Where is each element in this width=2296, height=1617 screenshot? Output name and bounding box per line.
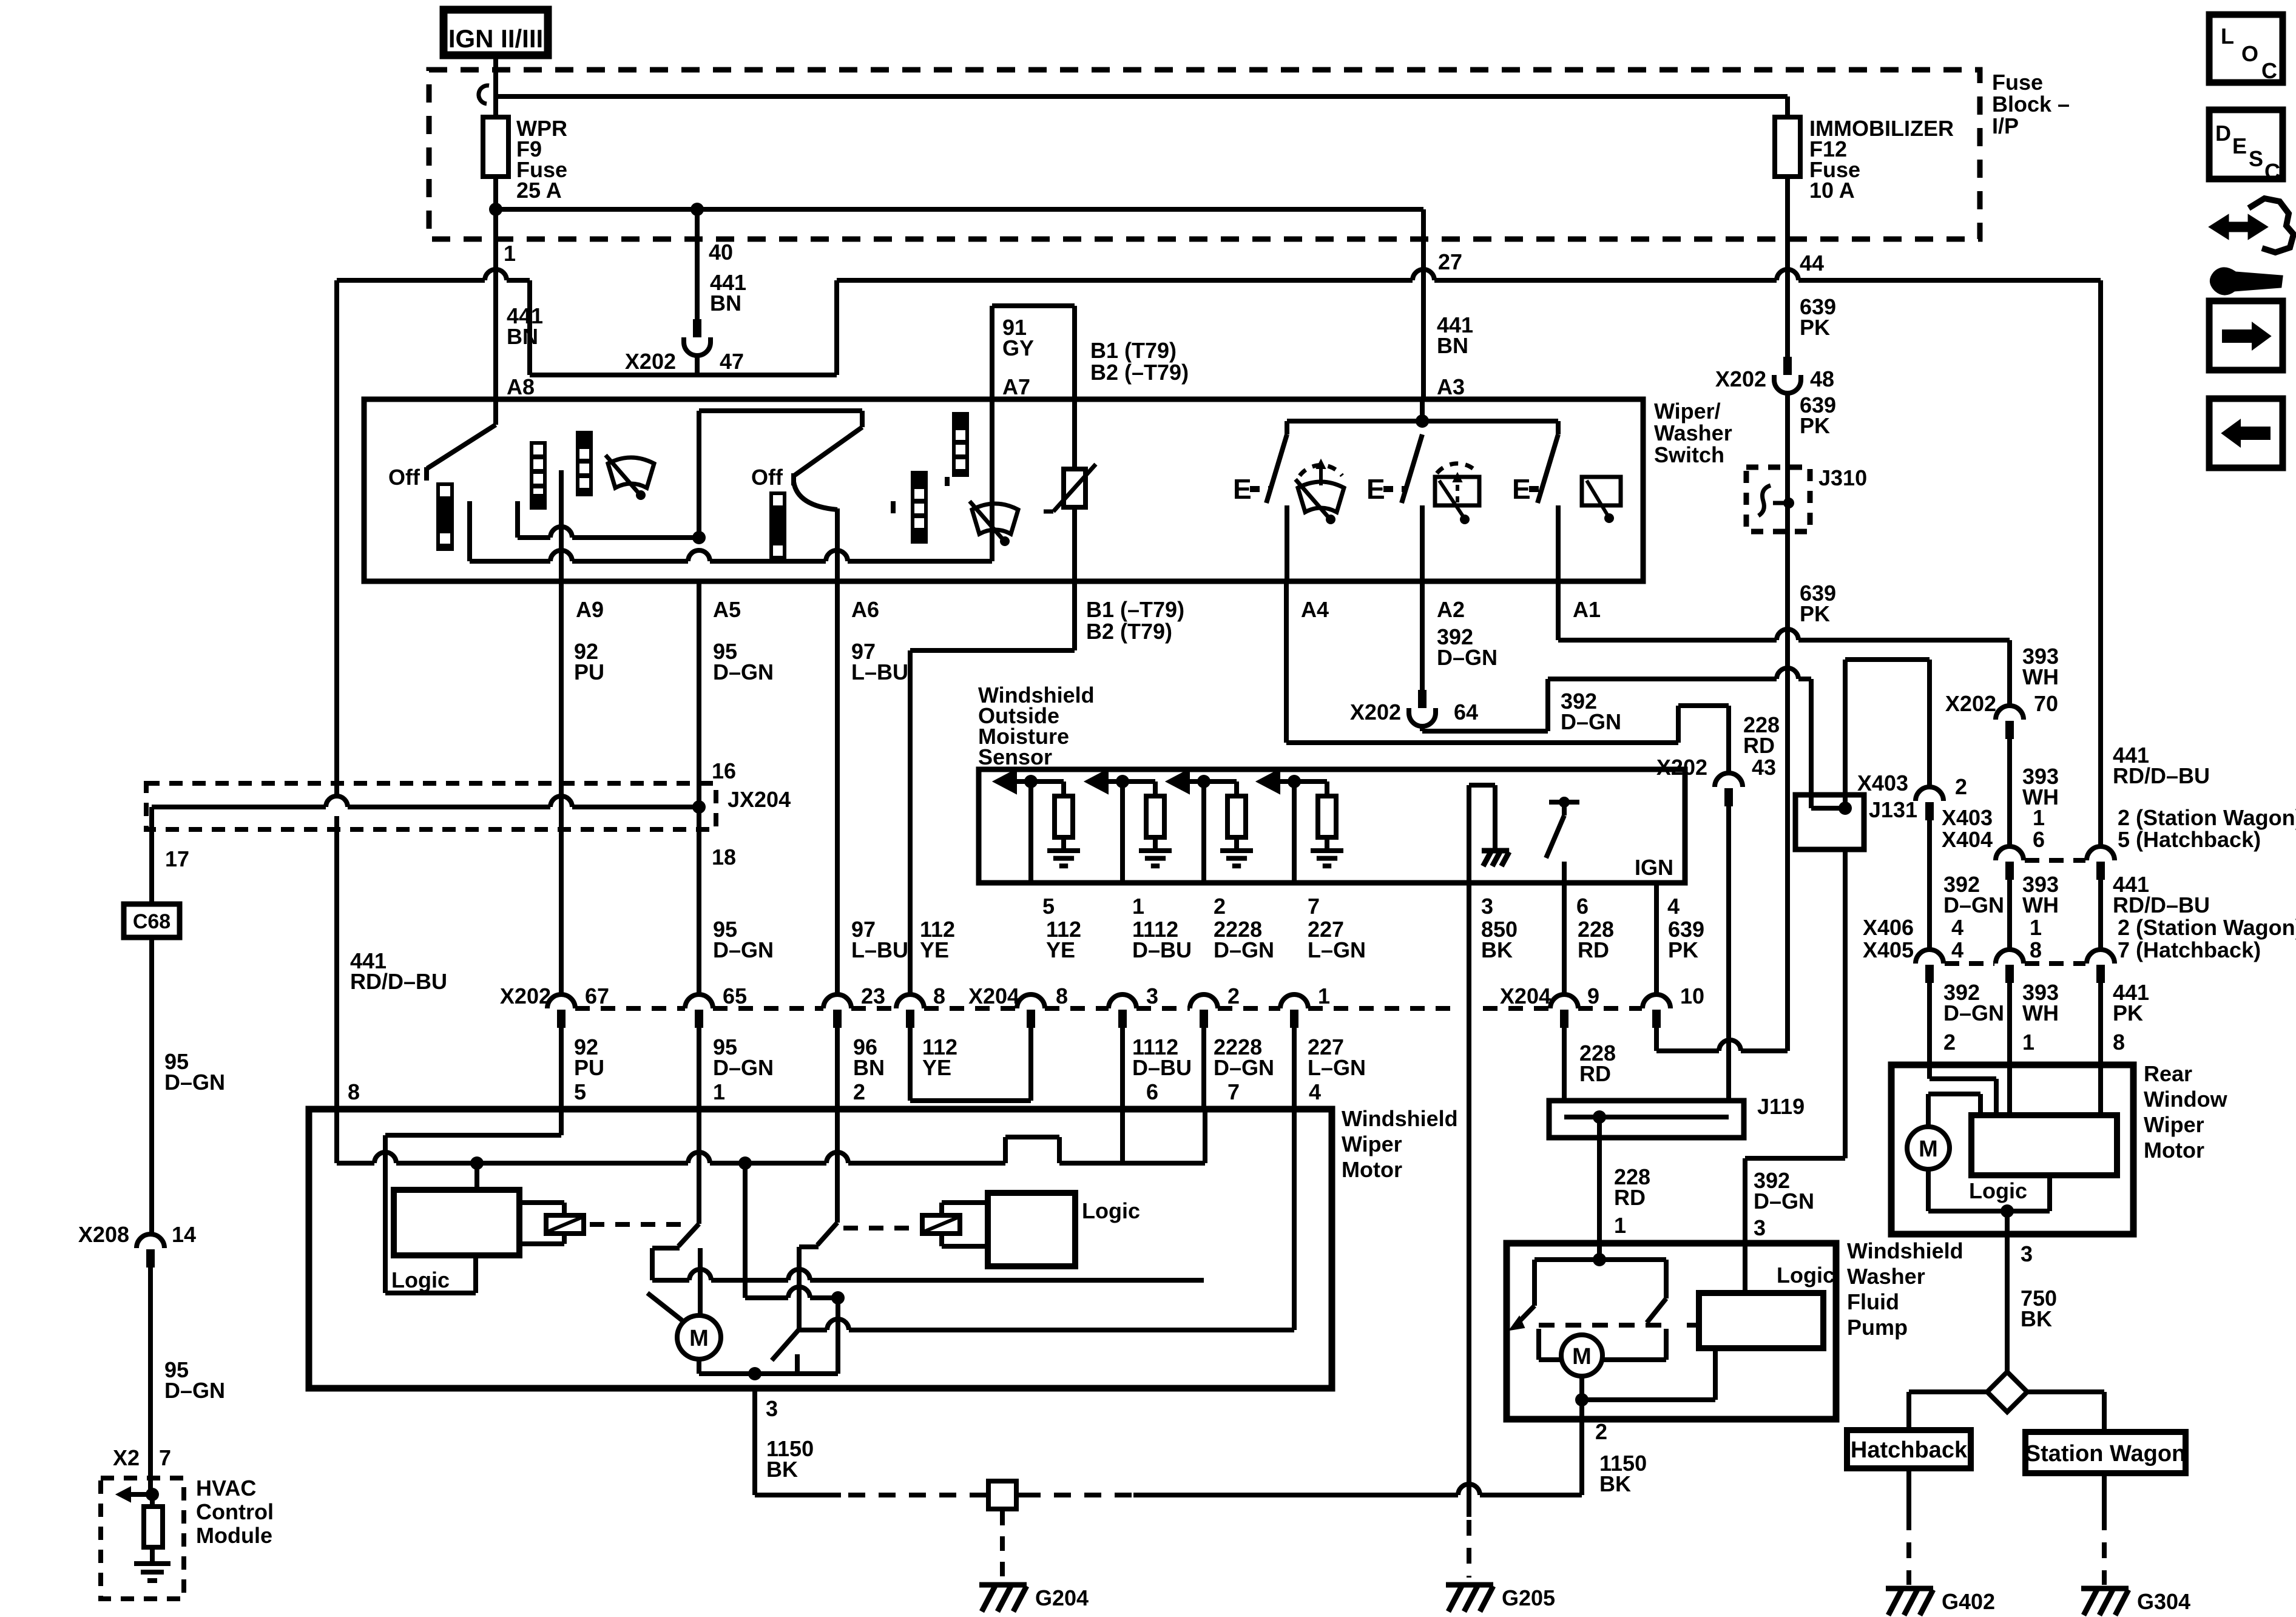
- svg-text:PU: PU: [574, 1055, 604, 1080]
- svg-text:PK: PK: [1800, 601, 1830, 626]
- wire 44 down to X202-48: [1785, 239, 1790, 357]
- svg-text:A8: A8: [507, 374, 535, 399]
- left rail corner: [334, 280, 339, 798]
- sensor cell 1 arrow: [993, 769, 1016, 794]
- svg-text:Logic: Logic: [391, 1268, 450, 1292]
- svg-text:RD/D–BU: RD/D–BU: [350, 969, 447, 994]
- svg-text:X202: X202: [1945, 691, 1996, 716]
- svg-text:J310: J310: [1818, 465, 1867, 490]
- motor bottom rail: [697, 1359, 701, 1374]
- diamond split: [1987, 1372, 2027, 1412]
- svg-text:D–GN: D–GN: [1943, 893, 2004, 917]
- dashed gang X403 row: [2025, 858, 2085, 863]
- ground G205: [1446, 1582, 1493, 1588]
- ground G304: [2081, 1586, 2129, 1592]
- svg-text:1: 1: [2022, 1030, 2034, 1055]
- J131 up-over to X403-2: [1843, 660, 1848, 808]
- svg-text:5: 5: [574, 1079, 586, 1104]
- svg-text:4: 4: [1309, 1079, 1321, 1104]
- wire A6 inside box: [835, 508, 840, 581]
- connector X204 pin 1: [1280, 994, 1308, 1008]
- svg-text:YE: YE: [920, 937, 949, 962]
- motor wire4 down: [1292, 1109, 1297, 1330]
- wire 44 below F12: [1785, 177, 1790, 239]
- HVAC control module dashed box: [101, 1478, 184, 1599]
- motor arm3 contact: [795, 1354, 800, 1374]
- washer contact A1: [1556, 505, 1561, 581]
- wire A3 (27 to switch): [1421, 239, 1426, 399]
- svg-text:A9: A9: [576, 597, 604, 622]
- svg-text:2: 2: [1955, 774, 1967, 799]
- wire fuse feed to F12 (top rail): [496, 94, 1788, 99]
- svg-text:14: 14: [172, 1222, 196, 1247]
- svg-text:B1 (–T79): B1 (–T79): [1086, 597, 1184, 622]
- svg-text:8: 8: [933, 984, 945, 1008]
- detent ladder 3: [911, 471, 928, 544]
- washer switch arm A4: [1266, 434, 1287, 503]
- svg-text:A3: A3: [1437, 374, 1465, 399]
- motor M feed: [698, 1248, 703, 1316]
- svg-text:A2: A2: [1437, 597, 1465, 622]
- detent ladder 1: [530, 441, 547, 510]
- washer switch arm A2: [1402, 434, 1422, 503]
- power tag IGN II/III: [444, 10, 548, 55]
- sensor cell 1 pin wire: [1028, 781, 1033, 883]
- svg-text:8: 8: [2113, 1030, 2125, 1055]
- svg-text:BN: BN: [853, 1055, 885, 1080]
- svg-text:X202: X202: [1656, 755, 1707, 780]
- wire A5 to X202-65: [697, 581, 701, 994]
- motor park rail: [799, 1328, 827, 1332]
- svg-text:E: E: [1233, 473, 1252, 505]
- svg-text:Sensor: Sensor: [978, 744, 1052, 769]
- svg-text:BN: BN: [710, 291, 741, 316]
- relay2 dashed link: [843, 1226, 917, 1230]
- wire 48 to J310: [1785, 392, 1790, 467]
- svg-text:Motor: Motor: [1342, 1157, 1402, 1182]
- wire X403-2 down to X406: [1927, 820, 1932, 950]
- washer icon wipe (A4): [1300, 465, 1342, 476]
- svg-text:IGN II/III: IGN II/III: [448, 24, 543, 53]
- wire 392 D-GN to J131: [1420, 725, 1425, 731]
- svg-text:3: 3: [1754, 1215, 1766, 1240]
- sensor IGN switch: [1549, 800, 1579, 805]
- connector X403/X404 on 441: [2087, 846, 2115, 860]
- box Station Wagon: [2025, 1432, 2186, 1473]
- connector X202 pin 70: [1996, 706, 2024, 720]
- wire Hatchback to G402: [1906, 1467, 1911, 1514]
- rear motor logic box: [1971, 1115, 2117, 1175]
- detent ladder 4: [952, 412, 969, 477]
- junction below F9: [489, 203, 502, 216]
- svg-text:3: 3: [1481, 894, 1493, 919]
- connector X204 pin 10: [1643, 994, 1670, 1008]
- wire A6 to X202-23: [835, 581, 840, 994]
- ground G402: [1886, 1586, 1933, 1592]
- motor wire2 arm: [835, 1109, 840, 1223]
- wire J131 to pump pin3: [1745, 1156, 1845, 1161]
- svg-text:1: 1: [504, 241, 516, 266]
- sensor cell 3 arrow: [1166, 769, 1189, 794]
- lower rail (to 91 GY loop): [467, 501, 472, 561]
- svg-text:L–GN: L–GN: [1308, 1055, 1366, 1080]
- svg-text:2: 2: [1227, 984, 1240, 1008]
- svg-text:X2: X2: [113, 1445, 140, 1470]
- svg-text:10 A: 10 A: [1809, 178, 1855, 203]
- pump dashed link: [1539, 1323, 1672, 1328]
- motor arm1 contact: [582, 1222, 652, 1223]
- svg-text:B1 (T79): B1 (T79): [1090, 338, 1177, 363]
- svg-text:BN: BN: [507, 324, 538, 349]
- svg-text:M: M: [1919, 1136, 1938, 1162]
- junction A5 rail: [692, 531, 706, 544]
- wire Station Wagon to G304: [2102, 1471, 2107, 1514]
- svg-text:64: 64: [1454, 700, 1478, 724]
- rear motor pin1 wire: [2007, 1065, 2012, 1115]
- svg-text:G204: G204: [1035, 1585, 1089, 1610]
- sensor cell 3 pin wire: [1201, 781, 1206, 883]
- motor wire6 into bus: [1120, 1109, 1125, 1163]
- G204 drop: [1002, 1507, 1003, 1511]
- pump switch left: [1535, 1257, 1599, 1262]
- svg-text:Logic: Logic: [1777, 1263, 1835, 1288]
- relay1 armature bracket: [519, 1200, 564, 1205]
- svg-text:Wiper/: Wiper/: [1654, 399, 1721, 424]
- wire below X202-47: [695, 354, 700, 375]
- HVAC ground: [134, 1561, 171, 1566]
- svg-text:1: 1: [1132, 894, 1144, 919]
- connector X202 pin 47: [693, 319, 701, 337]
- pump logic box: [1699, 1293, 1823, 1348]
- wire motor pin3 ground: [752, 1388, 757, 1495]
- moisture sensor rheostat: [1064, 469, 1086, 507]
- wire 40 branch (junction to X202-47): [496, 207, 697, 212]
- svg-text:B2 (–T79): B2 (–T79): [1090, 360, 1189, 385]
- wire 27 branch inside fuse block: [697, 207, 1423, 212]
- svg-text:5: 5: [1042, 894, 1055, 919]
- wire 441 between rows: [2098, 880, 2103, 950]
- svg-text:A1: A1: [1573, 597, 1601, 622]
- svg-text:X202: X202: [1350, 700, 1401, 724]
- wire below F9 to pin 1: [493, 177, 498, 239]
- connector X202 pin 23: [823, 994, 851, 1008]
- svg-text:L–GN: L–GN: [1308, 937, 1366, 962]
- svg-text:2: 2: [853, 1079, 865, 1104]
- icon wrench and arrows: [2210, 215, 2267, 238]
- svg-text:2 (Station Wagon): 2 (Station Wagon): [2118, 805, 2296, 830]
- svg-text:Windshield: Windshield: [1342, 1106, 1458, 1131]
- svg-text:Fluid: Fluid: [1847, 1289, 1899, 1314]
- washer icon wash-wipe (A2): [1437, 464, 1478, 473]
- svg-text:JX204: JX204: [728, 787, 791, 812]
- wire A9 to X202-67: [559, 581, 564, 994]
- J310 splice symbol: [1785, 467, 1790, 532]
- inline connector square: [988, 1481, 1016, 1509]
- svg-text:D: D: [2215, 121, 2231, 146]
- svg-text:RD: RD: [1579, 1061, 1611, 1086]
- svg-text:6: 6: [1146, 1079, 1158, 1104]
- motor M circle: [677, 1315, 721, 1359]
- svg-text:44: 44: [1800, 251, 1824, 275]
- svg-text:Motor: Motor: [2144, 1138, 2204, 1163]
- connector C68: [124, 904, 180, 937]
- svg-text:2: 2: [1595, 1419, 1607, 1444]
- pump pin1 node: [1597, 1243, 1602, 1260]
- svg-text:Rear: Rear: [2144, 1061, 2192, 1086]
- svg-text:2: 2: [1214, 894, 1226, 919]
- svg-text:8: 8: [348, 1079, 360, 1104]
- moisture sensor box: [979, 769, 1685, 883]
- rear motor bottom net: [1926, 1169, 1931, 1211]
- svg-text:X204: X204: [1500, 984, 1551, 1008]
- svg-text:7: 7: [159, 1445, 171, 1470]
- wire A9 inside box: [559, 470, 564, 581]
- ground G204: [979, 1582, 1027, 1588]
- relay2 coil: [922, 1215, 960, 1234]
- svg-text:C: C: [2261, 58, 2277, 83]
- svg-text:Pump: Pump: [1847, 1315, 1908, 1340]
- svg-text:7: 7: [1308, 894, 1320, 919]
- svg-text:A4: A4: [1301, 597, 1329, 622]
- wire J119 to washer pump pin1: [1597, 1117, 1602, 1243]
- svg-text:47: 47: [720, 349, 744, 374]
- wire to Station Wagon: [2027, 1389, 2104, 1394]
- svg-text:D–GN: D–GN: [1561, 709, 1621, 734]
- svg-text:PK: PK: [1800, 413, 1830, 438]
- svg-text:D–GN: D–GN: [1214, 1055, 1274, 1080]
- svg-text:D–GN: D–GN: [1943, 1001, 2004, 1025]
- svg-text:1: 1: [1318, 984, 1330, 1008]
- wire from IGN II/III to fuse block: [493, 55, 498, 75]
- wires X406 row to rear motor: [1927, 983, 1932, 1065]
- detent contact bar left: [436, 482, 454, 551]
- relay1 coil: [546, 1215, 584, 1234]
- svg-text:WH: WH: [2022, 1001, 2059, 1025]
- sensor ground return (850 BK): [1467, 785, 1471, 883]
- svg-text:65: 65: [723, 984, 747, 1008]
- svg-text:PK: PK: [1668, 937, 1698, 962]
- connector dashed gang line: [575, 1006, 685, 1011]
- HVAC resistor: [150, 1494, 155, 1507]
- sensor cell 3 resistor: [1234, 781, 1239, 796]
- svg-text:J119: J119: [1757, 1094, 1805, 1119]
- connector X202 pin 65: [685, 994, 713, 1008]
- svg-text:8: 8: [1056, 984, 1068, 1008]
- connector X208 pin 14: [137, 1234, 164, 1248]
- svg-text:PK: PK: [1800, 315, 1830, 340]
- svg-text:25 A: 25 A: [516, 178, 562, 203]
- wire 393 WH to X403 row: [2007, 739, 2012, 846]
- svg-text:GY: GY: [1002, 336, 1034, 360]
- motor arm2 contact: [799, 1244, 819, 1249]
- svg-text:X202: X202: [1715, 366, 1766, 391]
- sensor cell 2 resistor: [1153, 781, 1158, 796]
- svg-text:L–BU: L–BU: [851, 660, 908, 684]
- svg-text:70: 70: [2034, 691, 2058, 716]
- svg-text:IGN: IGN: [1635, 855, 1673, 880]
- svg-text:2 (Station Wagon): 2 (Station Wagon): [2118, 915, 2296, 940]
- sensor cell 4 pin wire: [1292, 781, 1297, 883]
- 92 PU drop: [383, 1135, 388, 1293]
- wire sensor pin3 850BK down: [1467, 883, 1471, 1517]
- svg-text:7 (Hatchback): 7 (Hatchback): [2118, 937, 2261, 962]
- connector X204 pin 8b: [1017, 994, 1045, 1008]
- svg-text:G304: G304: [2137, 1589, 2190, 1614]
- washer contact A4: [1285, 505, 1289, 581]
- HVAC junction and arrow: [146, 1488, 159, 1501]
- pump motor arms: [1536, 1329, 1541, 1360]
- icon box left arrow: [2209, 399, 2283, 468]
- svg-text:D–GN: D–GN: [164, 1378, 225, 1403]
- connector X202 pin 67: [547, 994, 575, 1008]
- svg-text:M: M: [1572, 1344, 1592, 1369]
- svg-text:RD: RD: [1578, 937, 1609, 962]
- wire 639 PK J310 down: [1785, 532, 1790, 1051]
- svg-text:3: 3: [1146, 984, 1158, 1008]
- icon box DESC: [2209, 110, 2283, 179]
- connector X202 pin 48: [1783, 357, 1792, 375]
- svg-text:D–GN: D–GN: [1437, 645, 1497, 670]
- dashed gang X406 row: [1945, 961, 1994, 966]
- box Hatchback: [1847, 1430, 1971, 1468]
- svg-text:1: 1: [713, 1079, 725, 1104]
- svg-text:D–BU: D–BU: [1132, 1055, 1192, 1080]
- B1 wire to X204-8: [1072, 583, 1077, 650]
- svg-text:10: 10: [1680, 984, 1704, 1008]
- wire A4 to X202-43: [1284, 581, 1289, 743]
- wire 850 BK to G205: [1468, 1517, 1470, 1529]
- svg-text:O: O: [2241, 41, 2258, 66]
- connector X204 pin 3: [1109, 994, 1136, 1008]
- svg-text:E: E: [1512, 473, 1531, 505]
- relay2 logic box: [988, 1193, 1075, 1266]
- washer bus bar A3: [1287, 419, 1558, 424]
- wire A8 from pin1: [493, 239, 498, 399]
- rear window wiper motor box: [1891, 1065, 2133, 1234]
- fuse F12 IMMOBILIZER 10A: [1775, 117, 1800, 177]
- motor bus from pin 8: [334, 1109, 339, 1163]
- wire 639 PK to X204-10: [1656, 1048, 1719, 1053]
- detent tick marks: [891, 501, 896, 513]
- svg-text:D–GN: D–GN: [713, 937, 774, 962]
- svg-text:A5: A5: [713, 597, 741, 622]
- svg-text:1: 1: [1614, 1213, 1626, 1238]
- svg-text:18: 18: [712, 845, 736, 869]
- wire 441 RD/D-BU rail: [334, 816, 339, 1109]
- svg-text:4: 4: [1951, 915, 1963, 940]
- relay1 coil feed: [474, 1163, 479, 1190]
- svg-text:X404: X404: [1942, 827, 1993, 852]
- svg-text:17: 17: [165, 846, 189, 871]
- svg-text:G402: G402: [1942, 1589, 1995, 1614]
- washer icon wash (A1): [1582, 477, 1621, 505]
- svg-text:Fuse: Fuse: [1992, 70, 2043, 95]
- svg-text:48: 48: [1810, 366, 1834, 391]
- svg-text:BK: BK: [766, 1457, 798, 1482]
- washer contact A2: [1420, 505, 1425, 581]
- J119 internal bus: [1564, 1101, 1565, 1117]
- svg-text:1: 1: [2033, 805, 2045, 830]
- svg-text:D–GN: D–GN: [1754, 1189, 1814, 1214]
- svg-text:4: 4: [1951, 937, 1963, 962]
- svg-text:WH: WH: [2022, 664, 2059, 689]
- ground bus dashed left: [1024, 1493, 1133, 1497]
- svg-text:X405: X405: [1863, 937, 1914, 962]
- rear motor pin3 wire: [2005, 1211, 2010, 1234]
- svg-text:RD: RD: [1743, 733, 1775, 758]
- pump pin2 wire: [1579, 1400, 1584, 1419]
- svg-text:BK: BK: [1599, 1471, 1631, 1496]
- JX204 dashed box: [146, 783, 716, 829]
- ground bus hop: [1133, 1493, 1458, 1497]
- svg-text:6: 6: [2033, 827, 2045, 852]
- svg-text:Control: Control: [196, 1499, 274, 1524]
- icon box right arrow: [2209, 301, 2283, 370]
- svg-text:M: M: [689, 1326, 709, 1351]
- fuse block dashed box (Fuse Block - I/P): [429, 70, 1980, 239]
- connector X406/X405 b: [1996, 950, 2024, 964]
- svg-text:RD/D–BU: RD/D–BU: [2113, 893, 2210, 917]
- 92 PU jog: [559, 1109, 564, 1135]
- windshield wiper motor box: [309, 1109, 1332, 1388]
- svg-text:7: 7: [1227, 1079, 1240, 1104]
- switch arm A8-Off: [493, 399, 498, 425]
- relay1 dashed link: [590, 1222, 682, 1227]
- motor wire7 into bus: [1203, 1109, 1207, 1163]
- svg-text:X208: X208: [78, 1222, 129, 1247]
- motor wire1 arm: [697, 1109, 701, 1224]
- fuse F9 WPR 25A: [493, 75, 498, 117]
- J310 dashed box: [1746, 467, 1810, 532]
- wiper icon right: [972, 504, 1018, 534]
- svg-text:67: 67: [585, 984, 609, 1008]
- sensor cell 4 resistor: [1325, 781, 1329, 796]
- pump motor bottom: [1579, 1376, 1584, 1400]
- svg-text:Off: Off: [388, 465, 420, 490]
- wire sensor pin4 to X204-10: [1654, 883, 1659, 994]
- pump switch right: [1599, 1257, 1666, 1262]
- motor arm3: [772, 1330, 799, 1360]
- connector X403 pin 2: [1916, 787, 1943, 801]
- svg-text:D–GN: D–GN: [713, 660, 774, 684]
- svg-text:5 (Hatchback): 5 (Hatchback): [2118, 827, 2261, 852]
- svg-text:Wiper: Wiper: [1342, 1132, 1402, 1156]
- wire X204-9 to J119: [1562, 1028, 1567, 1101]
- svg-text:2: 2: [1943, 1030, 1956, 1055]
- svg-text:3: 3: [766, 1396, 778, 1421]
- connector X204 pin 9: [1550, 994, 1578, 1008]
- svg-text:D–GN: D–GN: [713, 1055, 774, 1080]
- svg-text:9: 9: [1587, 984, 1599, 1008]
- svg-text:Hatchback: Hatchback: [1851, 1437, 1968, 1463]
- svg-text:RD: RD: [1614, 1185, 1646, 1210]
- svg-text:Window: Window: [2144, 1087, 2228, 1112]
- svg-text:Off: Off: [751, 465, 783, 490]
- connector X204 pin 2: [1190, 994, 1218, 1008]
- connector X406/X405 a: [1916, 950, 1943, 964]
- sensor cell 4 arrow: [1257, 769, 1280, 794]
- svg-text:Wiper: Wiper: [2144, 1112, 2204, 1137]
- sensor cell 2 arrow: [1085, 769, 1108, 794]
- svg-text:D–GN: D–GN: [1214, 937, 1274, 962]
- wire 441 rail right section: [837, 278, 1413, 283]
- svg-text:4: 4: [1667, 894, 1680, 919]
- svg-text:J131: J131: [1869, 797, 1917, 822]
- fuse holder curl at F9: [479, 86, 489, 104]
- svg-text:YE: YE: [922, 1055, 951, 1080]
- wiper icon left: [608, 457, 654, 488]
- svg-text:C68: C68: [133, 910, 171, 933]
